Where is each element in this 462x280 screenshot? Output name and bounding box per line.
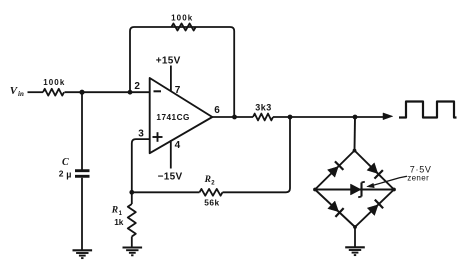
svg-text:1741CG: 1741CG: [156, 113, 190, 122]
svg-text:zener: zener: [407, 174, 429, 183]
svg-text:R: R: [204, 175, 211, 185]
svg-text:4: 4: [175, 140, 181, 151]
svg-text:2: 2: [211, 180, 215, 186]
svg-text:+15V: +15V: [156, 56, 181, 67]
svg-text:100k: 100k: [43, 78, 65, 87]
svg-text:6: 6: [214, 105, 220, 116]
svg-text:R: R: [111, 206, 118, 216]
svg-text:2: 2: [134, 81, 140, 92]
svg-text:7: 7: [175, 85, 181, 96]
svg-text:−15V: −15V: [158, 172, 183, 183]
svg-text:C: C: [62, 157, 69, 168]
svg-text:1k: 1k: [114, 217, 124, 227]
svg-text:3: 3: [138, 129, 144, 140]
svg-text:in: in: [18, 90, 24, 98]
svg-text:100k: 100k: [171, 13, 193, 22]
svg-text:56k: 56k: [204, 197, 219, 207]
svg-text:2: 2: [59, 169, 64, 179]
svg-text:3k3: 3k3: [255, 102, 272, 112]
svg-text:µ: µ: [66, 169, 71, 179]
